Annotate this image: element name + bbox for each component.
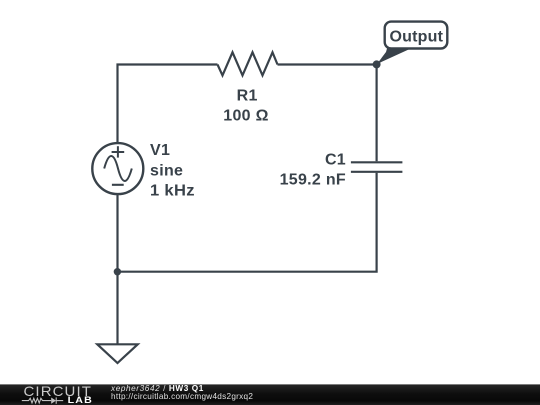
wire top-left horizontal: [118, 65, 218, 143]
svg-text:sine: sine: [150, 163, 183, 180]
svg-text:1 kHz: 1 kHz: [150, 182, 195, 199]
wire left vertical source to bottom: [116, 195, 118, 272]
voltage source V1: [92, 143, 143, 194]
svg-text:R1: R1: [237, 87, 258, 104]
svg-text:LAB: LAB: [68, 395, 93, 405]
svg-text:V1: V1: [150, 142, 170, 159]
wire to ground: [116, 272, 118, 344]
svg-text:C1: C1: [325, 152, 346, 169]
CircuitLab logo schematic squiggle: [22, 397, 63, 403]
resistor R1: [218, 52, 278, 75]
node Output junction dot: [373, 60, 381, 68]
node Output flag callout: [377, 22, 447, 64]
node junction dot bottom-left: [114, 268, 121, 275]
wire right vertical below capacitor and bottom horizontal: [116, 173, 376, 272]
svg-text:Output: Output: [389, 29, 443, 46]
svg-text:http://circuitlab.com/cmgw4ds2: http://circuitlab.com/cmgw4ds2grxq2: [111, 392, 253, 401]
svg-text:100 Ω: 100 Ω: [223, 108, 268, 125]
ground: [97, 344, 137, 363]
capacitor C1: [351, 162, 403, 172]
CircuitLab logo diode symbol: [51, 398, 56, 404]
wire top-right horizontal: [278, 65, 377, 162]
svg-text:159.2 nF: 159.2 nF: [280, 172, 346, 189]
